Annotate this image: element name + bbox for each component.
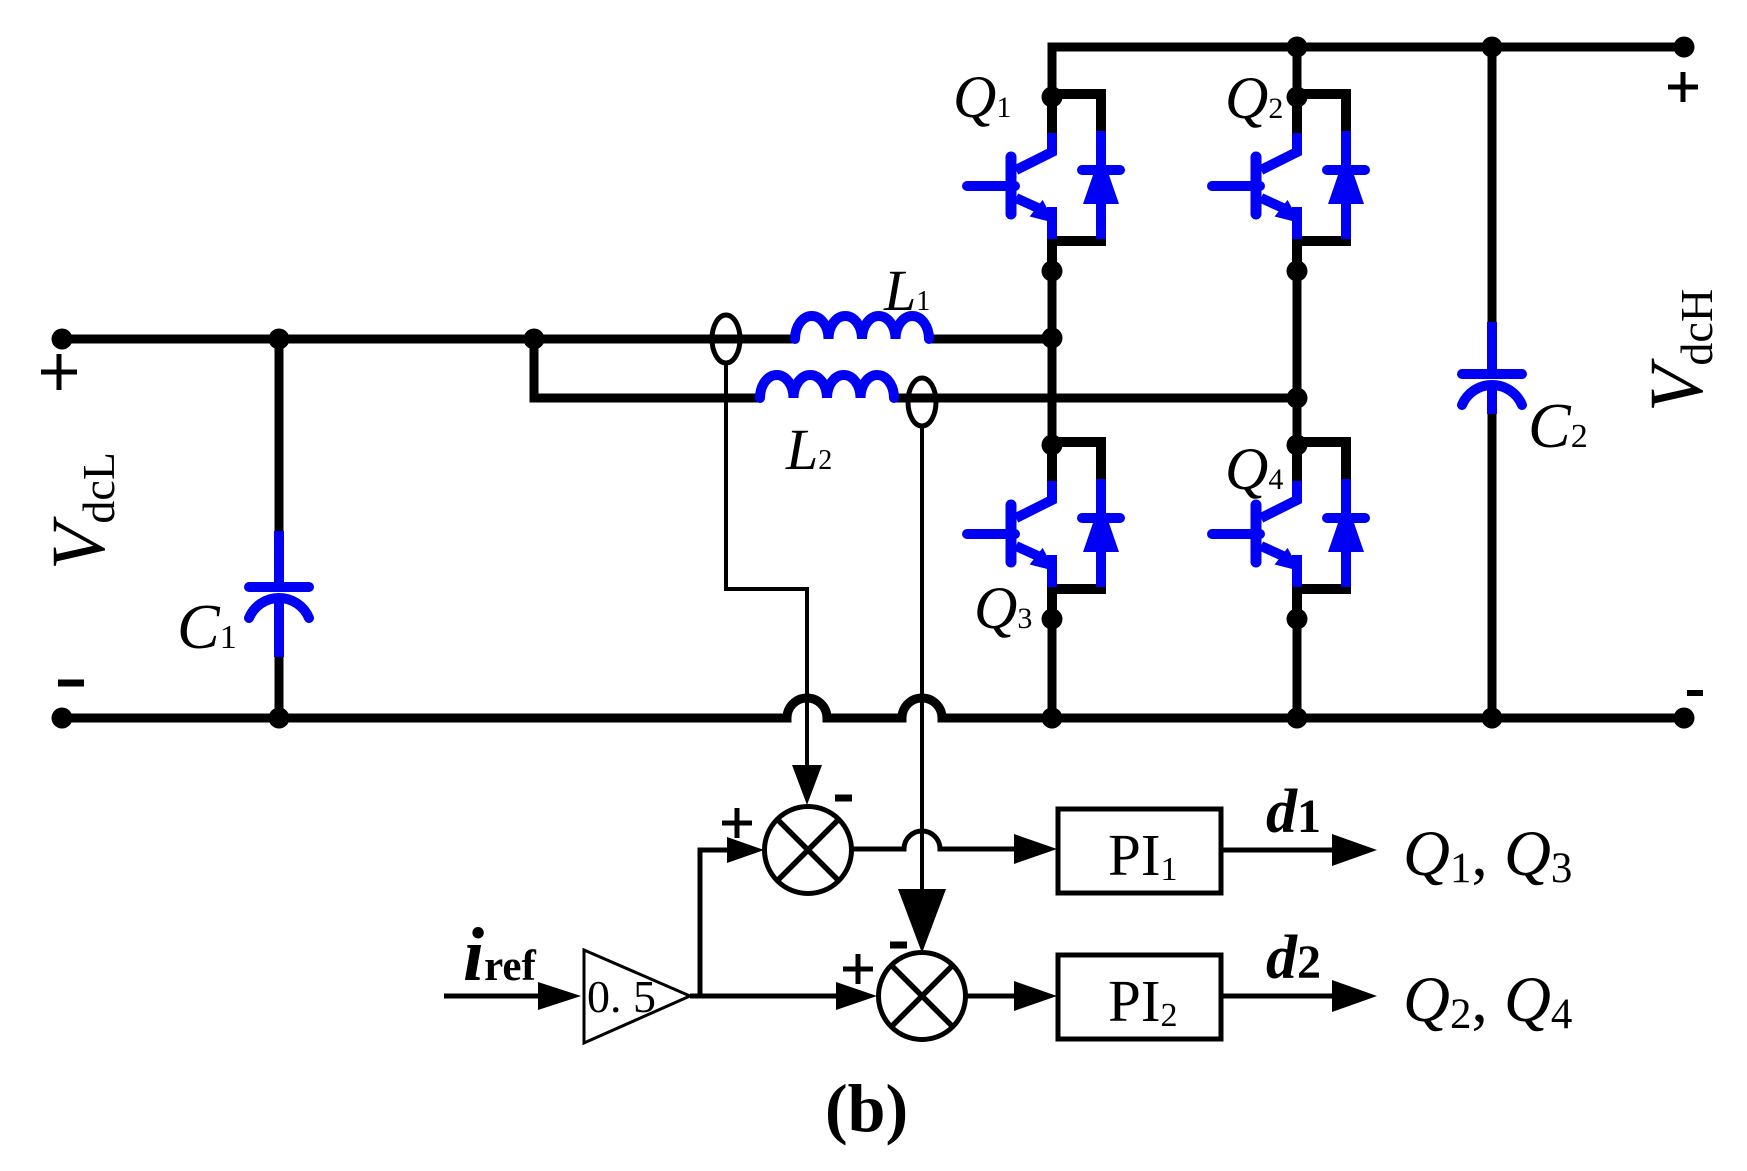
block PI1 — [1058, 809, 1221, 893]
wire feedforward riser — [700, 850, 730, 996]
svg-text:C2: C2 — [1528, 390, 1588, 461]
svg-text:C1: C1 — [177, 591, 237, 662]
svg-text:(b): (b) — [825, 1070, 908, 1146]
minus sign summer2 — [890, 942, 907, 949]
arrow into summer1 plus input — [727, 837, 764, 863]
transistor Q4 — [1212, 435, 1365, 630]
wire summer1 to PI1 with hop — [851, 831, 1016, 849]
minus sign summer1 — [835, 795, 852, 802]
summing junction 2 — [879, 953, 966, 1040]
capacitor C1 leads — [275, 339, 284, 718]
node dots top rail — [1287, 37, 1695, 58]
arrow into summer2 — [898, 889, 946, 953]
wire PI2 output d2 — [1221, 994, 1334, 999]
capacitor C1 — [249, 531, 309, 657]
svg-text:Q2, Q4: Q2, Q4 — [1403, 964, 1572, 1038]
wire top rail V+ high side — [1048, 43, 1685, 52]
svg-text:L1: L1 — [883, 258, 930, 323]
transistor Q1 — [967, 87, 1120, 282]
plus sign high side — [1668, 72, 1698, 102]
plus sign summer1 — [722, 808, 752, 838]
gain block 0.5 — [584, 950, 690, 1043]
svg-text:Q2: Q2 — [1225, 65, 1283, 131]
current sensor 2 — [908, 378, 936, 426]
wire PI1 output d1 — [1221, 848, 1334, 853]
svg-text:Q1: Q1 — [953, 64, 1011, 130]
svg-text:iref: iref — [463, 913, 537, 997]
svg-text:Q1, Q3: Q1, Q3 — [1403, 818, 1572, 892]
arrow iref input — [538, 982, 581, 1010]
arrow into summer2 plus input — [836, 982, 877, 1010]
svg-text:Q3: Q3 — [974, 575, 1032, 641]
wire L2 branch — [534, 339, 1297, 398]
transistor Q2 — [1212, 87, 1365, 282]
plus sign summer2 — [843, 954, 873, 984]
svg-text:L2: L2 — [785, 417, 832, 482]
svg-text:d2: d2 — [1266, 924, 1321, 992]
arrow into summer1 — [792, 765, 822, 805]
capacitor C2 leads — [1488, 47, 1497, 718]
wire leg1 spine — [1048, 43, 1057, 719]
svg-text:d1: d1 — [1266, 778, 1321, 846]
wire bottom rail with hops — [62, 698, 1684, 718]
minus sign low side — [58, 680, 84, 687]
node dots left rail — [52, 329, 545, 350]
svg-text:Q4: Q4 — [1225, 436, 1283, 502]
wire summer2 to PI2 — [966, 994, 1016, 999]
node L2 to leg2 — [1287, 388, 1308, 409]
svg-text:VdcH: VdcH — [1635, 289, 1722, 412]
node L1 to leg1 — [1042, 328, 1063, 349]
node dots bottom rail — [52, 708, 1695, 729]
arrow PI2 output — [1332, 980, 1377, 1012]
summing junction 1 — [765, 807, 852, 894]
capacitor C2 — [1462, 322, 1522, 414]
inductor L1 — [795, 316, 929, 339]
wire gain to summer2 — [690, 994, 836, 999]
current sensor 1 — [712, 315, 740, 363]
arrow into PI2 — [1014, 981, 1057, 1011]
wire iref input — [444, 994, 540, 999]
arrow into PI1 — [1014, 834, 1057, 864]
transistor Q3 — [967, 435, 1120, 630]
wire leg2 spine — [1293, 43, 1302, 719]
wire sensor1 to summer1 — [726, 361, 807, 766]
wire left rail V+ low side — [62, 335, 1052, 344]
svg-text:0. 5: 0. 5 — [587, 971, 656, 1022]
arrow PI1 output — [1332, 834, 1377, 866]
svg-text:VdcL: VdcL — [37, 452, 124, 570]
block PI2 — [1058, 955, 1221, 1039]
plus sign low side — [41, 354, 77, 390]
minus sign high side — [1687, 690, 1703, 696]
wire sensor2 to summer2 — [920, 424, 924, 890]
inductor L2 — [760, 375, 894, 398]
